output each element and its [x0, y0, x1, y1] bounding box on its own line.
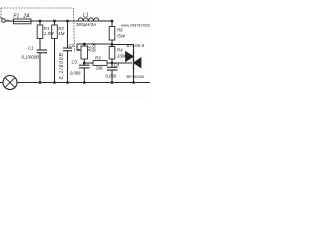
node top of C2 — [66, 20, 69, 23]
node top of R1 — [39, 20, 42, 23]
svg-text:C4: C4 — [114, 63, 120, 68]
node bottom of C2 — [66, 81, 69, 84]
wiper arrowhead — [78, 49, 81, 51]
wire pot node to R4 node — [77, 43, 112, 45]
svg-text:www.2987624532: www.2987624532 — [121, 24, 150, 28]
svg-text:0,1/600В: 0,1/600В — [59, 52, 65, 79]
triac VS1 — [126, 45, 142, 83]
node R6/R4 junction — [111, 43, 114, 46]
capacitor C2 — [63, 48, 72, 51]
wire R2 to bottom rail — [54, 39, 56, 83]
wire inductor to R6 branch — [99, 20, 112, 22]
node gate junction — [111, 62, 114, 65]
node bottom of R2 — [53, 81, 56, 84]
node triac bottom — [132, 81, 135, 84]
svg-text:L1: L1 — [83, 13, 89, 19]
wire C1 to bottom rail — [39, 53, 41, 83]
wire R4 to gate node — [111, 59, 113, 63]
svg-text:C2: C2 — [69, 43, 75, 48]
svg-text:0,1/600В: 0,1/600В — [22, 54, 40, 59]
svg-text:0,068: 0,068 — [70, 70, 81, 75]
wire top rail to C2 — [67, 21, 69, 48]
svg-text:C1: C1 — [28, 46, 34, 51]
node top of R6 — [111, 20, 114, 23]
svg-text:BTA06-6: BTA06-6 — [127, 43, 145, 48]
dashed enclosure top edge — [1, 7, 73, 9]
svg-text:R4: R4 — [117, 48, 123, 53]
wire R6/R4 node to triac top — [112, 44, 134, 46]
svg-text:1M: 1M — [58, 31, 64, 36]
potentiometer R5 — [81, 44, 88, 63]
node A pot bottom — [83, 62, 86, 65]
svg-text:380μH/3A: 380μH/3A — [76, 22, 96, 27]
dashed enclosure right edge — [74, 8, 75, 52]
svg-text:/5W: /5W — [116, 33, 126, 38]
node bottom of C3 — [83, 81, 86, 84]
resistor R6 — [109, 21, 115, 40]
wire R6 to R4 — [111, 40, 113, 47]
resistor R4 — [109, 47, 115, 60]
wire node A to R3 — [84, 62, 93, 64]
wire R3 to gate node — [107, 62, 112, 64]
node bottom of C4 — [111, 81, 114, 84]
svg-text:1,5M: 1,5M — [44, 31, 54, 36]
svg-text:R6: R6 — [117, 28, 123, 33]
svg-text:R3: R3 — [95, 56, 101, 61]
resistor R1 — [37, 21, 43, 39]
wire lamp left lead — [0, 82, 3, 84]
dashed enclosure left edge — [0, 8, 2, 17]
svg-text:2A: 2A — [23, 13, 31, 19]
wire fuse to inductor (top rail) — [31, 20, 78, 22]
input terminal X1 — [0, 17, 5, 23]
svg-text:500K: 500K — [91, 43, 96, 53]
fuse F1 — [14, 19, 32, 24]
node top of R2 — [53, 20, 56, 23]
svg-text:~: ~ — [7, 18, 10, 23]
resistor R2 — [52, 21, 58, 39]
capacitor C1 — [37, 50, 47, 53]
svg-text:0,068: 0,068 — [106, 74, 117, 79]
svg-text:BP100/50: BP100/50 — [127, 74, 145, 79]
wire C2 to bottom rail — [67, 51, 69, 83]
node bottom of C1 — [39, 81, 42, 84]
bottom rail wire — [17, 82, 150, 84]
svg-text:C3: C3 — [72, 59, 78, 64]
capacitor C3 — [79, 63, 90, 83]
inductor L1 — [78, 18, 99, 21]
svg-text:F1: F1 — [14, 13, 20, 19]
wire pot wiper loop — [77, 44, 81, 50]
resistor R3 — [93, 61, 107, 66]
lamp HL1 — [3, 76, 17, 90]
wire R1 to C1 — [39, 39, 41, 51]
node pot top — [83, 43, 86, 46]
wire gate node to triac gate — [112, 62, 132, 64]
wire terminal to fuse — [5, 20, 13, 22]
svg-text:33K: 33K — [96, 66, 104, 71]
capacitor C4 — [107, 63, 118, 83]
